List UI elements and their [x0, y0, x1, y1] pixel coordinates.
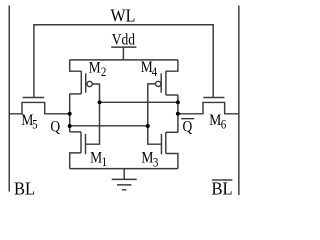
svg-text:M: M: [209, 112, 221, 129]
junction M2 gate / upper cross-coupling: [98, 100, 102, 104]
bit line BL: [8, 6, 10, 192]
svg-text:M: M: [90, 149, 102, 166]
transistor M4: [156, 60, 178, 95]
svg-text:M: M: [141, 150, 153, 167]
wire M2 gate to upper cross-coupling and M1 gate: [86, 84, 99, 144]
svg-text:2: 2: [101, 65, 107, 79]
svg-text:Q: Q: [183, 118, 193, 135]
junction node Q / lower cross-coupling: [68, 124, 72, 128]
svg-text:WL: WL: [111, 5, 136, 25]
transistor M2: [70, 60, 93, 94]
junction node Q-bar / M6 source: [176, 112, 180, 116]
bit line BL-bar: [238, 6, 240, 196]
ground rail wire: [70, 168, 178, 170]
wire M4 gate to lower cross-coupling and M3 gate: [148, 84, 161, 144]
svg-text:Q: Q: [50, 119, 60, 136]
transistor M6 (access, gate from WL): [178, 98, 239, 114]
junction M4 gate / lower cross-coupling: [146, 124, 150, 128]
junction node Q / M5 drain: [68, 112, 72, 116]
cross-coupling wire upper (Q-bar to M1/M2 gates): [100, 101, 178, 103]
word line WL wire: [34, 25, 213, 97]
Vdd supply symbol: [111, 47, 136, 60]
transistor M5 (access, gate from WL): [9, 98, 69, 114]
svg-text:Vdd: Vdd: [112, 32, 136, 49]
node Q wire: [69, 94, 71, 132]
transistor M1: [70, 132, 86, 169]
svg-text:4: 4: [152, 65, 158, 79]
svg-text:5: 5: [32, 118, 38, 132]
Vdd rail wire: [70, 59, 178, 61]
svg-text:M: M: [89, 60, 101, 77]
ground symbol: [112, 169, 137, 190]
transistor M3: [161, 132, 177, 168]
svg-text:BL: BL: [212, 179, 233, 199]
svg-text:BL: BL: [14, 179, 35, 199]
node Q-bar wire: [177, 95, 179, 132]
junction node Q-bar / upper cross-coupling: [176, 100, 180, 104]
svg-text:6: 6: [221, 118, 227, 132]
svg-text:1: 1: [102, 155, 108, 169]
svg-text:3: 3: [153, 156, 159, 170]
cross-coupling wire lower (Q to M3/M4 gates): [70, 125, 148, 127]
